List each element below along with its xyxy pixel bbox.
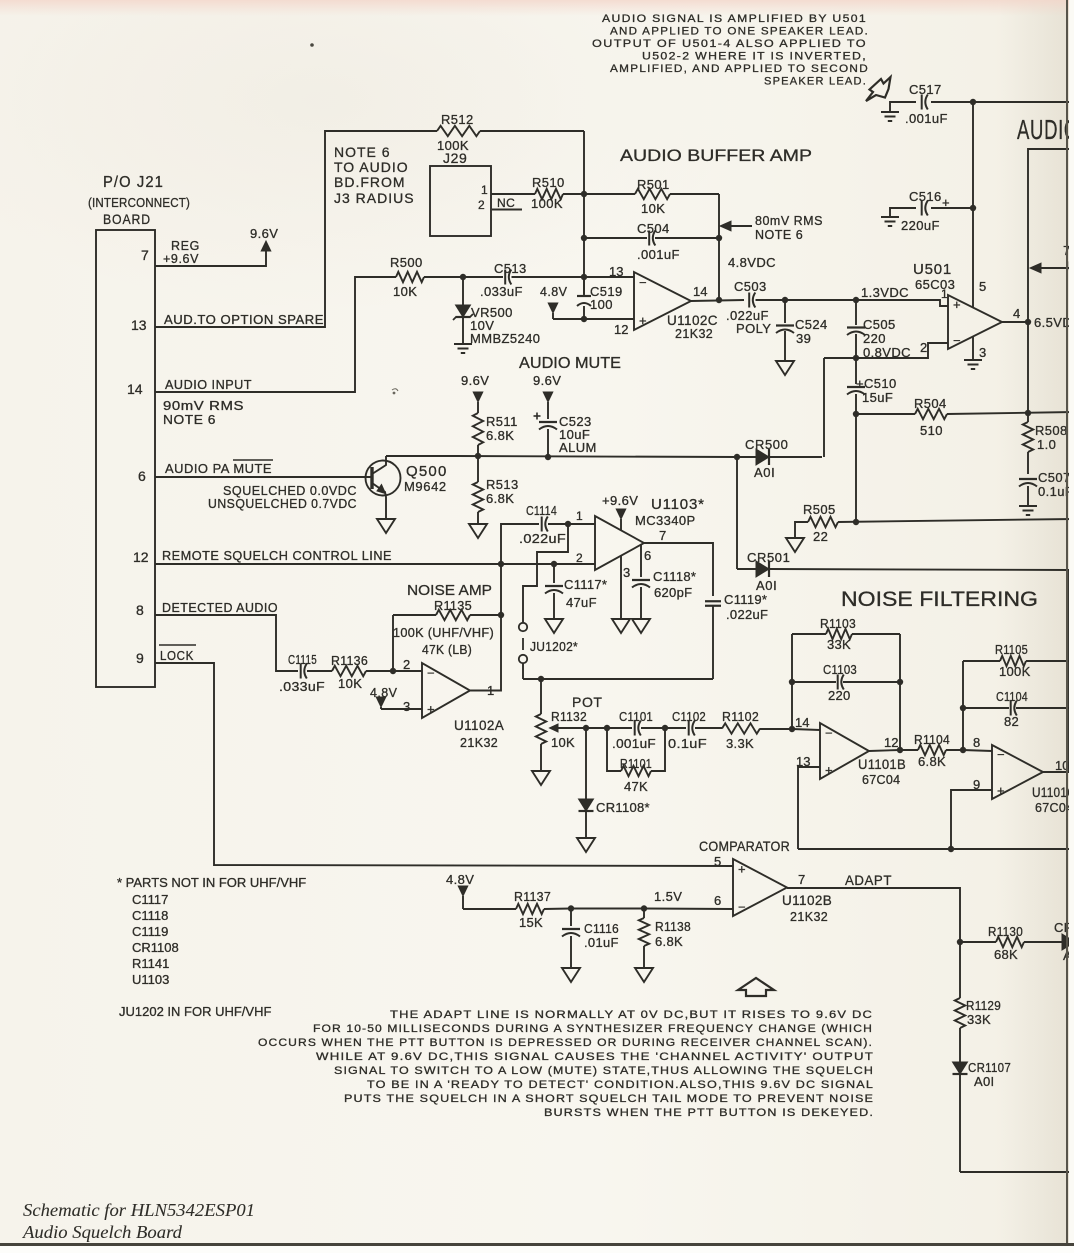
label 9.6V (C523) [533, 373, 561, 388]
svg-text:BURSTS WHEN THE PTT BUTTON IS: BURSTS WHEN THE PTT BUTTON IS DEKEYED. [544, 1107, 874, 1119]
diode CR501 [737, 561, 1069, 577]
wire R501 row [584, 194, 719, 301]
ground R505 [786, 538, 804, 552]
svg-text:(INTERCONNECT): (INTERCONNECT) [88, 195, 190, 210]
svg-text:BD.FROM: BD.FROM [334, 174, 406, 190]
wire R1130 to CR1106 [1024, 941, 1062, 943]
resistor R504 [915, 409, 947, 419]
label R510 [531, 175, 565, 211]
svg-text:AUDIO SIGNAL IS AMPLIFIED BY U: AUDIO SIGNAL IS AMPLIFIED BY U501 [602, 13, 867, 25]
svg-text:COMPARATOR: COMPARATOR [699, 838, 790, 854]
wire C513 to node rail [512, 276, 585, 278]
svg-text:7: 7 [798, 872, 805, 887]
wire R504 row right [947, 412, 1074, 414]
supply arrow 9.6V (R511) [473, 392, 483, 402]
capacitor C1115 [301, 664, 307, 679]
svg-text:47K (LB): 47K (LB) [422, 642, 472, 657]
svg-text:.033uF: .033uF [480, 284, 523, 299]
svg-text:U501: U501 [913, 261, 952, 278]
label R1103 [820, 616, 856, 652]
ground U1103 pin3 [612, 619, 630, 633]
label BOARD [103, 211, 151, 227]
label R1132 [551, 709, 587, 750]
capacitor C1118 [632, 545, 650, 619]
svg-text:−: − [427, 665, 435, 680]
svg-text:−: − [825, 726, 833, 741]
svg-text:C1114: C1114 [526, 503, 557, 518]
node C505 bottom [853, 355, 859, 361]
svg-text:Q500: Q500 [406, 463, 448, 480]
svg-text:6: 6 [138, 468, 146, 484]
svg-text:33K: 33K [827, 637, 851, 652]
supply arrow 4.8V (U1102C) [548, 303, 558, 319]
svg-text:C1119*: C1119* [724, 592, 767, 607]
wire C1104 row [963, 707, 1069, 709]
svg-text:NOTE 6: NOTE 6 [163, 413, 216, 427]
capacitor C1114 [542, 517, 548, 532]
capacitor C1104 [1011, 701, 1017, 716]
resistor R511 [473, 402, 483, 456]
label C1115 [279, 652, 325, 694]
capacitor C1103 [838, 675, 844, 690]
svg-text:−: − [738, 899, 746, 914]
wire pin14 up to R500 [155, 277, 396, 392]
pin label 13 [796, 754, 810, 769]
label VR500 [470, 305, 540, 346]
connector J21 box [96, 230, 155, 687]
label R508 [1035, 423, 1068, 452]
svg-text:+: + [997, 783, 1005, 798]
svg-text:CR500: CR500 [745, 437, 788, 452]
svg-text:U502-2 WHERE IT IS INVERTED,: U502-2 WHERE IT IS INVERTED, [642, 51, 867, 63]
wire R512 to node [480, 130, 584, 132]
pin 9 number [136, 650, 144, 666]
resistor R505 [808, 517, 838, 527]
supply arrow +9.6V (U1103) [616, 509, 626, 530]
capacitor C1116 [562, 909, 580, 969]
note JU1202 in for UHF/VHF [119, 1004, 271, 1019]
svg-text:Schematic for HLN5342ESP01: Schematic for HLN5342ESP01 [23, 1200, 255, 1220]
node R510/R501 [581, 191, 587, 197]
svg-text:JU1202*: JU1202* [530, 639, 578, 654]
label 4.8V (comparator) [446, 872, 474, 887]
svg-text:M9642: M9642 [404, 479, 447, 494]
node C504 right [716, 235, 722, 241]
wire minus input U1102C [584, 276, 634, 278]
node pin8 U1101C [960, 747, 966, 753]
wire U501 pin5 rail [972, 102, 974, 308]
wire adapt [787, 888, 960, 942]
label R1102 [722, 709, 759, 751]
svg-text:+: + [427, 702, 435, 717]
node noise amp minus [390, 668, 396, 674]
svg-text:.001uF: .001uF [637, 247, 680, 262]
symbol adapt pointer [738, 978, 774, 996]
svg-text:1: 1 [576, 509, 583, 523]
label 90mV RMS [163, 399, 244, 413]
resistor R510 [535, 189, 563, 199]
wire U501 minus jog [856, 343, 948, 358]
svg-text:R513: R513 [486, 477, 519, 492]
node C519 plus [581, 316, 587, 322]
pin label 12 [884, 735, 898, 750]
wire R1103 right rail [899, 634, 901, 750]
svg-text:4.8V: 4.8V [540, 285, 568, 299]
svg-text:C1119: C1119 [132, 924, 168, 939]
label C513 [480, 261, 527, 299]
label R512 [437, 112, 474, 153]
svg-text:510: 510 [920, 423, 943, 438]
pin 14 number [127, 381, 143, 397]
diode CR1107 [953, 1062, 968, 1172]
svg-text:TO BE IN A 'READY TO DETECT' C: TO BE IN A 'READY TO DETECT' CONDITION.A… [367, 1079, 874, 1091]
node pin14 [789, 726, 795, 732]
wire C510 rail down [855, 414, 857, 522]
svg-text:10K: 10K [338, 676, 362, 691]
svg-text:POT: POT [572, 694, 603, 710]
svg-text:15K: 15K [519, 915, 543, 930]
label R501 [637, 177, 670, 216]
label +9.6V (U1103) [602, 493, 638, 508]
svg-text:1.3VDC: 1.3VDC [861, 285, 909, 300]
capacitor C504 [649, 231, 655, 246]
label R500 [390, 255, 423, 299]
node C524 [782, 297, 788, 303]
wire comparator minus row [463, 908, 516, 910]
svg-text:+: + [825, 762, 833, 777]
svg-text:21K32: 21K32 [675, 327, 713, 341]
node C1101/C1102 [662, 725, 668, 731]
label R1129 [966, 998, 1001, 1027]
pin label 6 (U1103) [644, 548, 651, 563]
node C1103 left [789, 679, 795, 685]
svg-text:5: 5 [979, 279, 986, 294]
svg-text:90mV RMS: 90mV RMS [163, 399, 244, 413]
svg-text:C1117*: C1117* [564, 577, 607, 592]
svg-text:C505: C505 [863, 317, 896, 332]
note text block (top right) [592, 13, 869, 88]
svg-text:9.6V: 9.6V [250, 226, 278, 241]
pin label 2 (U1102A) [403, 657, 410, 672]
wire filter bottom row [798, 848, 1074, 850]
svg-text:R1141: R1141 [132, 956, 169, 971]
svg-text:3: 3 [623, 565, 630, 580]
svg-text:220uF: 220uF [901, 218, 940, 233]
title NOISE FILTERING [841, 587, 1038, 611]
svg-text:+9.6V: +9.6V [602, 493, 638, 508]
wire wiper to C1101 [586, 727, 632, 729]
capacitor C505 [847, 300, 865, 358]
svg-text:BOARD: BOARD [103, 211, 151, 227]
svg-text:39: 39 [796, 331, 811, 346]
J29 pin 1 number [481, 183, 488, 197]
op-amp U1102B [733, 859, 787, 916]
node U1101B output [897, 747, 903, 753]
svg-text:6: 6 [644, 548, 651, 563]
node C1117 tap [551, 561, 557, 567]
label R1138 [655, 919, 691, 949]
node minus input U1102C [581, 274, 587, 280]
svg-text:6.8K: 6.8K [486, 491, 514, 506]
J29 pin 2 number [478, 198, 485, 212]
pin label 3 (U501) [979, 345, 986, 360]
ground Q500 emitter [377, 519, 395, 533]
svg-text:21K32: 21K32 [460, 736, 498, 750]
label C519 [590, 284, 623, 312]
svg-text:UNSQUELCHED 0.7VDC: UNSQUELCHED 0.7VDC [208, 497, 357, 511]
wire R1136 to node [366, 670, 393, 672]
node C516 junction [970, 205, 976, 211]
svg-text:J29: J29 [443, 150, 467, 166]
svg-text:2: 2 [478, 198, 485, 212]
svg-text:C1117: C1117 [132, 892, 168, 907]
ground C1116 [562, 968, 580, 982]
wire U501 output [1002, 321, 1028, 323]
supply arrow 4.8V (comparator) [458, 886, 468, 909]
label 1.3VDC [861, 285, 909, 300]
svg-text:.022uF: .022uF [726, 607, 768, 622]
label C1117 [564, 577, 607, 610]
node pot feed [538, 676, 544, 682]
svg-text:U1103*: U1103* [651, 496, 705, 513]
pin label 14 [693, 284, 707, 299]
label C523 [559, 414, 597, 455]
label 6.5VDC [1034, 315, 1074, 330]
svg-text:U1102C: U1102C [667, 313, 718, 328]
label R1104 [914, 732, 950, 769]
svg-text:12: 12 [614, 322, 628, 337]
label C516 [901, 189, 942, 233]
note NOTE 6 TO AUDIO BD.FROM J3 RADIUS [334, 144, 415, 206]
label C1116 [584, 921, 619, 950]
wire C1103 row [792, 681, 900, 683]
wire R505 row right [838, 519, 1074, 522]
pin 6 number [138, 468, 146, 484]
scan speck [310, 43, 398, 394]
svg-text:13: 13 [609, 264, 623, 279]
label CR500 [745, 437, 788, 480]
label C510 [856, 376, 897, 405]
wire R510 to node [563, 193, 584, 195]
node CR500 tee [734, 454, 740, 460]
label R1136 [331, 653, 368, 691]
node U1103 pin1 [565, 521, 571, 527]
svg-text:100K (UHF/VHF): 100K (UHF/VHF) [393, 625, 494, 640]
svg-text:SPEAKER LEAD.: SPEAKER LEAD. [764, 76, 867, 88]
svg-text:2: 2 [576, 551, 583, 565]
wire U1101B output [869, 750, 900, 751]
label C1101 [612, 709, 656, 751]
capacitor C524 [776, 300, 794, 361]
pin 13 number [131, 317, 147, 333]
label C524 [795, 317, 828, 346]
wire JU1202 bottom row [523, 678, 713, 680]
resistor R1136 [332, 666, 366, 676]
svg-text:C1118*: C1118* [653, 569, 696, 584]
node C1116 [568, 905, 574, 911]
capacitor C503 [749, 293, 755, 308]
resistor R1137 [516, 904, 544, 914]
svg-text:220: 220 [828, 688, 851, 703]
svg-text:CR1108*: CR1108* [596, 800, 650, 815]
op-amp U1101B [820, 723, 869, 779]
svg-text:12: 12 [884, 735, 898, 750]
node C1104 left [960, 705, 966, 711]
note adapt paragraph [258, 1009, 874, 1119]
svg-text:C1104: C1104 [996, 689, 1028, 704]
block U502 outline [1028, 149, 1074, 413]
label U1102A [454, 718, 504, 750]
wire noise filter right rail [1068, 570, 1070, 772]
svg-text:R1138: R1138 [655, 919, 691, 934]
svg-text:U1103: U1103 [132, 972, 169, 987]
wire R1130 row [960, 941, 996, 943]
svg-text:OUTPUT OF U501-4 ALSO APPLIED: OUTPUT OF U501-4 ALSO APPLIED TO [592, 38, 867, 50]
svg-text:15uF: 15uF [862, 390, 893, 405]
wire C504 row [584, 237, 719, 239]
pin label 7 (U1103) [659, 528, 666, 543]
svg-text:AUDIO MUTE: AUDIO MUTE [519, 355, 621, 372]
ground for C517 [881, 112, 899, 121]
wire U1101B plus [798, 767, 820, 849]
ground R513 [469, 524, 487, 538]
svg-text:TO AUDIO: TO AUDIO [334, 159, 409, 175]
ground U501 pin3 [964, 360, 982, 369]
svg-text:U1101B: U1101B [858, 757, 906, 772]
label REG +9.6V [163, 239, 200, 266]
svg-text:U1102A: U1102A [454, 718, 504, 733]
supply arrow 9.6V (C523) [543, 392, 553, 402]
title AUDIO (PA section) [1017, 114, 1074, 145]
svg-text:14: 14 [693, 284, 707, 299]
label R1130 [988, 924, 1023, 962]
pin label 6 [714, 893, 721, 908]
label UNSQUELCHED 0.7VDC [208, 497, 357, 511]
ground for C516 [881, 217, 899, 226]
svg-text:6.8K: 6.8K [486, 428, 514, 443]
svg-text:R1101: R1101 [620, 756, 652, 771]
resistor R1102 [722, 723, 760, 733]
title AUDIO BUFFER AMP [620, 146, 812, 165]
capacitor C1117 [545, 564, 563, 619]
wire pin8 detected audio [155, 615, 298, 671]
svg-text:12: 12 [133, 549, 149, 565]
wire to U501 plus [856, 300, 948, 306]
wire pin13 up to R512 loop [155, 131, 437, 327]
label SQUELCHED 0.0VDC [223, 484, 357, 498]
capacitor C516 [922, 195, 950, 216]
label R511 [486, 414, 518, 443]
label 4.8V (U1102C) [540, 285, 568, 299]
capacitor C519 [577, 277, 591, 319]
wire pin14 riser [791, 634, 793, 729]
svg-text:6.8K: 6.8K [655, 934, 683, 949]
svg-text:C1115: C1115 [288, 652, 317, 667]
node VR500 [460, 274, 466, 280]
node wiper [583, 725, 589, 731]
capacitor C523 [534, 402, 558, 457]
svg-text:0.1uF: 0.1uF [668, 736, 707, 751]
wire R504 row left [856, 413, 915, 415]
label C517 [905, 82, 948, 126]
label C1114 [519, 503, 566, 546]
svg-text:CR1107: CR1107 [968, 1060, 1011, 1075]
wire to C505 node [785, 299, 856, 301]
label CR1108 [596, 800, 650, 815]
svg-text:R1132: R1132 [551, 709, 587, 724]
svg-text:AMPLIFIED, AND APPLIED TO SECO: AMPLIFIED, AND APPLIED TO SECOND [610, 63, 869, 75]
label INTERCONNECT [88, 195, 190, 210]
svg-text:7: 7 [659, 528, 666, 543]
svg-text:R501: R501 [637, 177, 670, 192]
svg-text:47K: 47K [624, 779, 648, 794]
label AUDIO INPUT [165, 378, 252, 392]
svg-text:REMOTE SQUELCH CONTROL LINE: REMOTE SQUELCH CONTROL LINE [162, 549, 392, 563]
svg-text:AUDIO INPUT: AUDIO INPUT [165, 378, 252, 392]
svg-text:14: 14 [795, 715, 809, 730]
caption title [22, 1200, 255, 1242]
potentiometer R1132 [536, 679, 586, 771]
label AUD.TO OPTION SPARE [164, 313, 324, 327]
wire pin6 to Q500 base [155, 476, 372, 478]
pin 7 number [141, 247, 149, 263]
op-amp U1101C [992, 745, 1043, 799]
svg-text:100K: 100K [531, 196, 563, 211]
resistor R1103 loop [792, 629, 900, 639]
label U1103 [635, 496, 705, 528]
node bottom row [948, 846, 954, 852]
svg-text:8: 8 [973, 735, 980, 750]
label C1119 [724, 592, 768, 622]
node C523 mute [545, 454, 551, 460]
label 4.8VDC [728, 255, 776, 270]
op-amp U1102A [422, 663, 470, 718]
wire R1104 to node8 [946, 749, 963, 751]
svg-text:R1105: R1105 [995, 642, 1028, 657]
svg-text:CR1108: CR1108 [132, 940, 179, 955]
svg-text:220: 220 [863, 331, 886, 346]
pin label 10 [1055, 758, 1069, 773]
wire C1102 to R1102 [695, 727, 722, 729]
svg-text:6: 6 [714, 893, 721, 908]
label R504 [914, 396, 947, 438]
svg-text:+9.6V: +9.6V [163, 252, 199, 266]
label DETECTED AUDIO [162, 601, 278, 615]
resistor R1130 [996, 937, 1024, 947]
svg-text:67C04: 67C04 [862, 773, 900, 787]
svg-text:ALUM: ALUM [559, 440, 597, 455]
resistor R508 [1023, 413, 1033, 474]
pin 12 number [133, 549, 149, 565]
wire into U1101B minus [792, 729, 820, 730]
title NOISE AMP [407, 582, 492, 599]
label AUDIO PA MUTE [165, 460, 273, 476]
ground C507 [1019, 506, 1037, 515]
svg-text:−: − [953, 333, 961, 348]
resistor R501 [635, 189, 670, 199]
node C505 top [853, 297, 859, 303]
svg-text:10K: 10K [551, 735, 575, 750]
pin label 4 (U501) [1013, 306, 1020, 321]
label 9.6V (pin7) [250, 226, 278, 241]
diode CR1106 [1062, 934, 1074, 950]
svg-text:DETECTED AUDIO: DETECTED AUDIO [162, 601, 278, 615]
svg-text:FOR 10-50 MILLISECONDS DURING: FOR 10-50 MILLISECONDS DURING A SYNTHESI… [313, 1023, 873, 1035]
label 9.6V (R511) [461, 373, 489, 388]
wire R1137 to C1116 node [544, 908, 571, 911]
resistor R1105 loop [963, 656, 1069, 666]
pin label 1 (U1102A) [487, 683, 494, 698]
